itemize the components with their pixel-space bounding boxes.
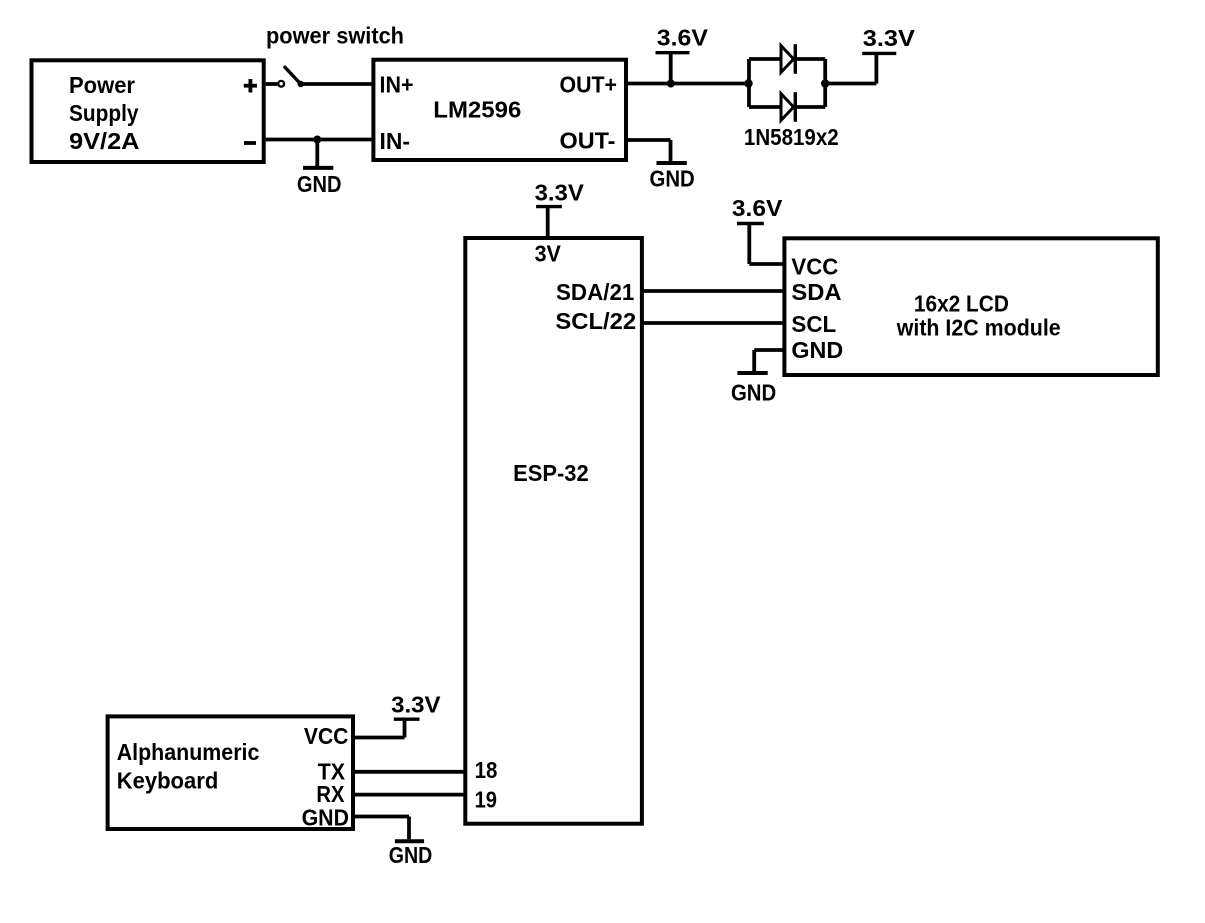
ground GND4 (keyboard) xyxy=(389,841,433,868)
svg-text:OUT+: OUT+ xyxy=(560,72,618,98)
svg-text:with I2C module: with I2C module xyxy=(896,315,1061,341)
wire bottom branch xyxy=(749,105,825,109)
svg-text:3.3V: 3.3V xyxy=(535,180,585,206)
power 3.3V (ESP-32 supply) xyxy=(535,180,585,239)
power 3.6V (at LM2596 output) xyxy=(656,25,709,84)
wire TX to ESP pin 18 xyxy=(353,770,465,774)
wire PS- to LM2596 IN- xyxy=(266,138,374,142)
svg-text:19: 19 xyxy=(475,786,497,812)
diode D2 1N5819 (bottom) xyxy=(781,92,795,122)
wire RX to ESP pin 19 xyxy=(353,793,465,797)
svg-text:Supply: Supply xyxy=(69,100,139,126)
svg-text:3.3V: 3.3V xyxy=(391,692,441,718)
block Alphanumeric Keyboard xyxy=(108,716,353,829)
svg-text:SCL: SCL xyxy=(791,311,836,337)
svg-text:GND: GND xyxy=(389,842,433,868)
svg-text:Keyboard: Keyboard xyxy=(117,768,219,794)
svg-text:GND: GND xyxy=(302,804,349,830)
display 16x2 LCD with I2C module xyxy=(784,238,1157,375)
node right diode junction xyxy=(821,79,829,87)
wire LCD GND to ground xyxy=(754,350,784,371)
block Power Supply 9V/2A xyxy=(32,60,264,162)
svg-text:GND: GND xyxy=(791,337,843,363)
wire SCL bus xyxy=(642,321,785,325)
pin label - (power supply negative) xyxy=(244,141,256,145)
ground GND1 (input) xyxy=(297,140,342,197)
svg-text:OUT-: OUT- xyxy=(560,128,616,154)
wire PS+ to switch contact xyxy=(266,82,278,86)
diode D1 1N5819 (top) xyxy=(781,44,795,74)
svg-text:GND: GND xyxy=(297,171,342,197)
svg-text:IN+: IN+ xyxy=(380,72,414,98)
ground GND3 (LCD) xyxy=(731,373,776,406)
wire SDA bus xyxy=(642,289,785,293)
svg-text:LM2596: LM2596 xyxy=(433,97,521,123)
svg-text:18: 18 xyxy=(475,757,498,783)
power 3.3V (diode output) xyxy=(862,25,915,53)
switch SW1 open contact circle xyxy=(278,81,284,87)
svg-text:SDA/21: SDA/21 xyxy=(556,279,635,305)
junction dot on IN- wire xyxy=(313,136,321,144)
power 3.3V (keyboard supply) xyxy=(391,692,441,720)
svg-text:power switch: power switch xyxy=(266,23,404,49)
pin label + (power supply positive) xyxy=(244,79,257,93)
microcontroller ESP-32 xyxy=(465,238,642,824)
svg-text:GND: GND xyxy=(731,380,776,406)
svg-text:Alphanumeric: Alphanumeric xyxy=(117,739,260,765)
node left diode junction xyxy=(744,79,752,87)
wire LCD VCC to 3.6V xyxy=(749,224,784,265)
svg-text:IN-: IN- xyxy=(380,128,411,154)
power 3.6V (LCD supply) xyxy=(732,195,783,224)
svg-text:Power: Power xyxy=(69,72,135,98)
wire diode left branch vertical xyxy=(747,59,751,107)
svg-text:16x2 LCD: 16x2 LCD xyxy=(914,290,1009,316)
svg-text:ESP-32: ESP-32 xyxy=(513,460,589,486)
wire switch to LM2596 IN+ xyxy=(301,82,374,86)
switch SW1 pole dot xyxy=(298,81,304,87)
svg-text:VCC: VCC xyxy=(304,723,349,749)
svg-text:VCC: VCC xyxy=(791,254,838,280)
junction dot on OUT+ wire xyxy=(667,80,675,88)
svg-text:RX: RX xyxy=(316,781,345,807)
svg-text:SCL/22: SCL/22 xyxy=(555,308,636,334)
svg-text:SDA: SDA xyxy=(791,279,841,305)
regulator LM2596 xyxy=(373,60,626,160)
wire top branch xyxy=(749,57,825,61)
ground GND2 (output) xyxy=(650,163,695,191)
wire diode output to 3.3V xyxy=(825,53,876,83)
svg-text:9V/2A: 9V/2A xyxy=(69,128,140,154)
wire diode right branch vertical xyxy=(823,59,827,107)
wire keyboard GND to ground xyxy=(353,817,409,840)
svg-text:3V: 3V xyxy=(535,240,562,266)
svg-text:1N5819x2: 1N5819x2 xyxy=(744,124,839,150)
wire OUT+ to diode node xyxy=(626,82,749,86)
wire keyboard VCC to 3.3V xyxy=(353,719,405,737)
svg-text:3.6V: 3.6V xyxy=(732,195,783,221)
switch SW1 lever xyxy=(285,67,301,84)
svg-text:3.3V: 3.3V xyxy=(863,25,916,51)
wire OUT- to ground xyxy=(626,140,671,161)
svg-text:3.6V: 3.6V xyxy=(657,25,709,51)
svg-text:GND: GND xyxy=(650,165,695,191)
